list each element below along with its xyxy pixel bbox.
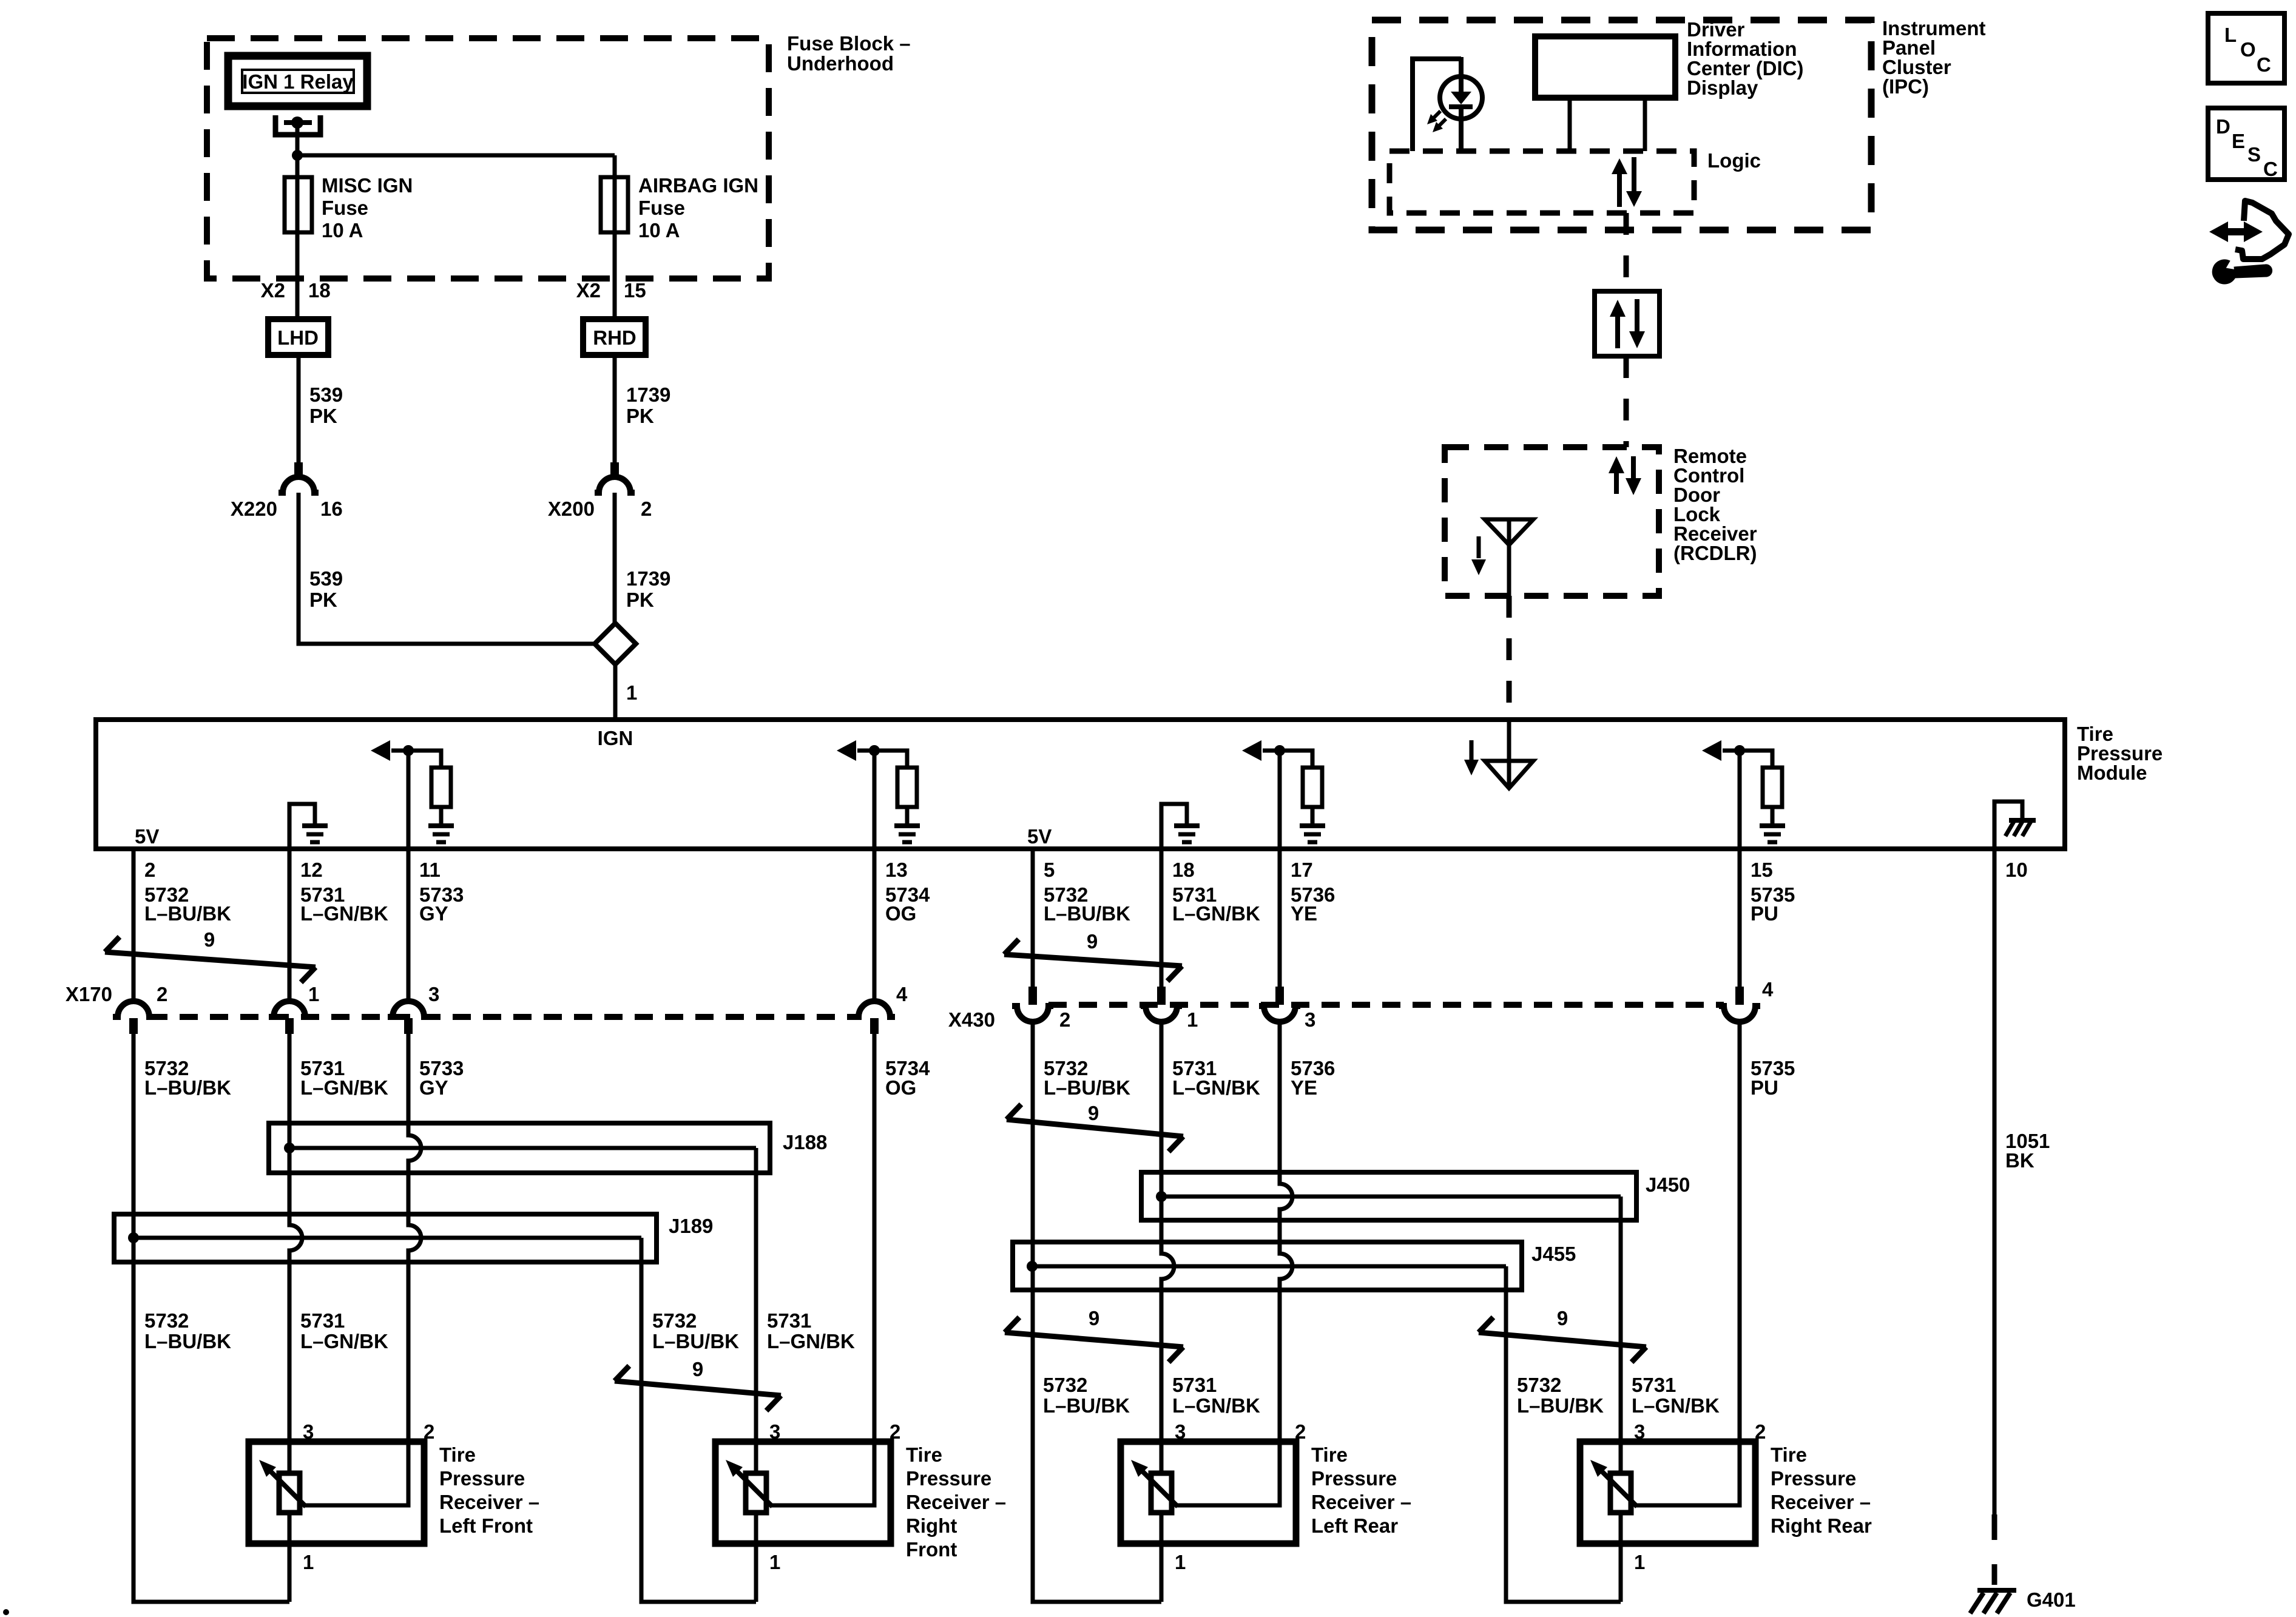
ground symbol internal pin 18 — [1161, 804, 1200, 849]
wire module pin to X430 at x=2867 — [1738, 849, 1742, 987]
antenna driver resistor internal pin 11 — [371, 740, 454, 849]
label AIRBAG IGN Fuse 10 A — [638, 174, 758, 241]
svg-text:3: 3 — [428, 983, 439, 1005]
svg-text:18: 18 — [308, 279, 331, 302]
svg-text:16: 16 — [320, 498, 343, 520]
svg-text:2: 2 — [424, 1420, 434, 1443]
label Remote Control Door Lock Receiver (RCDLR) — [1673, 445, 1757, 564]
svg-text:4: 4 — [896, 983, 908, 1005]
label pin 3 right rear — [1634, 1420, 1645, 1443]
svg-text:Receiver –: Receiver – — [1771, 1491, 1871, 1513]
wire 1739 PK upper label — [626, 383, 670, 427]
svg-text:2: 2 — [1755, 1420, 1766, 1443]
svg-text:5732: 5732 — [1043, 1374, 1087, 1396]
wire label 5732 L–BU/BK lower — [1043, 1374, 1130, 1417]
relay K IGN 1 Relay box — [228, 56, 367, 106]
svg-text:539: 539 — [309, 567, 343, 590]
wire J188 output 5731 to right front pin 3 — [754, 1148, 758, 1602]
wire module pin to X170 at x=477 — [288, 849, 292, 1002]
wire label 5733 GY upper — [419, 883, 464, 925]
label X430 pin 4 — [1762, 978, 1774, 1001]
photocell sensor symbol — [1413, 57, 1482, 151]
connector X2 pin 15 label — [576, 279, 646, 302]
splice pack J188 — [269, 1123, 770, 1173]
wire label 5731 L–GN/BK upper — [300, 883, 388, 925]
svg-text:2: 2 — [1295, 1420, 1306, 1443]
connector X170 pin 2 — [113, 1001, 154, 1034]
svg-text:Left Rear: Left Rear — [1311, 1514, 1398, 1537]
svg-text:RHD: RHD — [593, 326, 636, 349]
wire DIC display left leg — [1568, 98, 1572, 151]
wire label 5733 GY below connector — [419, 1057, 464, 1099]
svg-text:9: 9 — [204, 928, 215, 951]
wire module pin to X170 at x=1441 — [873, 849, 877, 1002]
label module pin 18 — [1172, 859, 1195, 881]
svg-text:L–BU/BK: L–BU/BK — [1044, 902, 1130, 925]
svg-text:17: 17 — [1291, 859, 1313, 881]
relay contact terminal symbol — [275, 115, 320, 135]
svg-text:(RCDLR): (RCDLR) — [1673, 542, 1757, 564]
svg-text:PK: PK — [309, 405, 337, 427]
svg-text:MISC IGN: MISC IGN — [322, 174, 413, 197]
svg-text:C: C — [2263, 158, 2278, 180]
wire 5736 YE with hops at J450 J455 — [1177, 1022, 1292, 1505]
wire label 5732 L–BU/BK below connector — [144, 1057, 231, 1099]
svg-text:L–GN/BK: L–GN/BK — [1172, 1076, 1260, 1099]
wire relay output horizontal to airbag fuse — [297, 154, 615, 158]
wire module pin to X170 at x=673 — [407, 849, 411, 1002]
svg-text:X200: X200 — [548, 498, 595, 520]
label pin 1 left rear — [1175, 1551, 1186, 1573]
svg-text:3: 3 — [303, 1420, 314, 1443]
svg-text:D: D — [2216, 115, 2230, 138]
svg-text:15: 15 — [1751, 859, 1773, 881]
svg-text:L–BU/BK: L–BU/BK — [652, 1330, 739, 1352]
label Tire Pressure Module — [2077, 723, 2163, 784]
svg-text:3: 3 — [769, 1420, 780, 1443]
splice pack J450 — [1141, 1172, 1636, 1220]
tire pressure receiver right rear — [1580, 1442, 1755, 1544]
connector X170 pin 1 — [269, 1001, 310, 1034]
label Fuse Block - Underhood — [787, 32, 911, 75]
label pin 1 right front — [769, 1551, 780, 1573]
instrument panel cluster IPC (dashed box) — [1372, 20, 1871, 230]
svg-text:BK: BK — [2005, 1149, 2034, 1172]
label X430 pin 2 — [1059, 1008, 1070, 1031]
label X170 pin 4 — [896, 983, 908, 1005]
photocell light arrows — [1427, 111, 1446, 132]
label pin 2 right rear — [1755, 1420, 1766, 1443]
svg-text:Underhood: Underhood — [787, 52, 894, 75]
wire relay output vertical — [295, 123, 300, 319]
svg-text:L–BU/BK: L–BU/BK — [144, 902, 231, 925]
wire label 5735 PU upper — [1751, 883, 1795, 925]
wire label 5736 YE upper — [1291, 883, 1335, 925]
svg-text:L–BU/BK: L–BU/BK — [144, 1076, 231, 1099]
svg-text:(IPC): (IPC) — [1882, 75, 1929, 98]
label pin 3 right front — [769, 1420, 780, 1443]
svg-text:IGN 1 Relay: IGN 1 Relay — [242, 70, 354, 93]
wire label 5732 L–BU/BK mid — [144, 1309, 231, 1352]
svg-text:L–GN/BK: L–GN/BK — [1632, 1394, 1720, 1417]
logic data arrows — [1612, 157, 1642, 207]
svg-text:3: 3 — [1634, 1420, 1645, 1443]
label Logic — [1707, 149, 1761, 172]
label module pin 2 — [144, 859, 155, 881]
svg-text:YE: YE — [1291, 1076, 1317, 1099]
wire airbag fuse vertical — [613, 155, 617, 319]
icon wrench outline — [2235, 201, 2289, 259]
svg-text:5V: 5V — [135, 825, 159, 848]
svg-text:Pressure: Pressure — [439, 1467, 525, 1490]
label X200 2 — [548, 498, 652, 520]
svg-text:L–BU/BK: L–BU/BK — [1517, 1394, 1604, 1417]
connector X430 pin 1 — [1141, 987, 1182, 1022]
label module pin 5 — [1044, 859, 1055, 881]
ground symbol internal pin 12 — [289, 804, 328, 849]
wire label 5731 L–GN/BK mid — [300, 1309, 388, 1352]
svg-text:5731: 5731 — [1632, 1374, 1676, 1396]
DIC display box — [1535, 36, 1675, 98]
wire label 5732 L–BU/BK upper — [1044, 883, 1130, 925]
connector X170 pin 3 — [388, 1001, 429, 1034]
wire RF signal RCDLR to module (dashed) — [1507, 596, 1512, 720]
svg-text:1: 1 — [1634, 1551, 1645, 1573]
svg-text:10 A: 10 A — [638, 219, 680, 241]
wire 5731 right column with hop at J455 — [1161, 1022, 1174, 1602]
svg-text:O: O — [2240, 38, 2256, 61]
svg-text:13: 13 — [885, 859, 908, 881]
wire 5732 right column down to bottom turn — [1033, 1022, 1161, 1602]
svg-text:2: 2 — [157, 983, 167, 1005]
wire DIC display right leg — [1643, 98, 1647, 151]
svg-text:Tire: Tire — [439, 1443, 476, 1466]
svg-text:L–GN/BK: L–GN/BK — [1172, 902, 1260, 925]
svg-text:9: 9 — [1557, 1307, 1568, 1329]
connector X170 pin 4 — [854, 1001, 895, 1034]
label IGN internal — [598, 727, 633, 749]
splice diamond symbol — [595, 623, 636, 664]
label 5V internal right — [1027, 825, 1052, 848]
svg-text:LHD: LHD — [277, 326, 319, 349]
svg-text:Front: Front — [906, 1538, 957, 1561]
svg-text:11: 11 — [419, 859, 441, 881]
label module pin 17 — [1291, 859, 1313, 881]
fuse F MISC IGN 10A — [285, 177, 312, 232]
svg-text:L–GN/BK: L–GN/BK — [300, 1076, 388, 1099]
svg-text:PU: PU — [1751, 902, 1778, 925]
label pin 3 left rear — [1175, 1420, 1186, 1443]
wire 5733 GY with hops at J188 J189 — [305, 1034, 421, 1505]
svg-text:L–BU/BK: L–BU/BK — [1044, 1076, 1130, 1099]
label X430 pin 3 — [1305, 1008, 1315, 1031]
svg-text:X2: X2 — [576, 279, 601, 302]
svg-text:X220: X220 — [231, 498, 277, 520]
svg-text:12: 12 — [300, 859, 323, 881]
wire label 5731 L–GN/BK upper — [1172, 883, 1260, 925]
svg-text:J189: J189 — [669, 1215, 713, 1237]
svg-text:PK: PK — [309, 589, 337, 611]
svg-text:1739: 1739 — [626, 567, 670, 590]
svg-text:5: 5 — [1044, 859, 1055, 881]
option box RHD — [583, 319, 646, 355]
label J450 — [1646, 1173, 1690, 1196]
label J455 — [1531, 1243, 1576, 1265]
svg-text:1: 1 — [769, 1551, 780, 1573]
svg-text:L–GN/BK: L–GN/BK — [767, 1330, 855, 1352]
svg-text:Pressure: Pressure — [906, 1467, 991, 1490]
label MISC IGN Fuse 10 A — [322, 174, 413, 241]
wire module pin to X430 at x=1702 — [1031, 849, 1035, 987]
svg-text:AIRBAG IGN: AIRBAG IGN — [638, 174, 758, 197]
svg-text:Receiver –: Receiver – — [1311, 1491, 1411, 1513]
svg-text:Display: Display — [1687, 76, 1758, 99]
label pin 1 right rear — [1634, 1551, 1645, 1573]
svg-text:G401: G401 — [2027, 1588, 2076, 1611]
label X170 pin 1 — [308, 983, 319, 1005]
svg-text:Fuse: Fuse — [638, 197, 685, 219]
svg-text:L–BU/BK: L–BU/BK — [144, 1330, 231, 1352]
svg-text:X2: X2 — [261, 279, 285, 302]
wire label 5734 OG below connector — [885, 1057, 930, 1099]
twisted pair symbol 9 upper right — [1004, 930, 1182, 981]
svg-text:L: L — [2224, 24, 2237, 46]
label pin 2 right front — [890, 1420, 900, 1443]
label X170 pin 2 — [157, 983, 167, 1005]
label module pin 11 — [419, 859, 441, 881]
svg-text:Tire: Tire — [906, 1443, 942, 1466]
svg-text:9: 9 — [1087, 930, 1098, 953]
wire 5735 PU down to right rear pin 2 — [1636, 1022, 1740, 1505]
antenna driver resistor internal pin 17 — [1242, 740, 1325, 849]
fuse block - underhood (dashed box) — [207, 38, 769, 279]
twisted pair symbol 9 left rear — [1005, 1307, 1183, 1362]
svg-text:Receiver –: Receiver – — [439, 1491, 539, 1513]
svg-text:J450: J450 — [1646, 1173, 1690, 1196]
wire 1739 PK lower label — [626, 567, 670, 611]
label X170 — [66, 983, 112, 1005]
option box LHD — [268, 319, 328, 355]
wire J455 output 5732 to right rear pin 1 — [1506, 1266, 1621, 1602]
label 5V internal left — [135, 825, 159, 848]
svg-text:539: 539 — [309, 383, 343, 406]
wire 5732 left column down to bottom turn — [133, 1034, 289, 1602]
label module pin 10 — [2005, 859, 2028, 881]
connector X430 pin 4 — [1719, 987, 1760, 1022]
svg-text:GY: GY — [419, 902, 448, 925]
wire 5734 OG down to right front pin 2 — [771, 1034, 874, 1505]
svg-text:Pressure: Pressure — [1311, 1467, 1397, 1490]
svg-text:E: E — [2232, 130, 2245, 152]
svg-text:5731: 5731 — [1172, 1374, 1217, 1396]
wire label 5732 L–BU/BK lower — [1517, 1374, 1604, 1417]
wire label 5732 L–BU/BK upper — [144, 883, 231, 925]
svg-text:2: 2 — [1059, 1008, 1070, 1031]
label X170 pin 3 — [428, 983, 439, 1005]
wire 1051 BK pin 10 to G401 — [1993, 849, 1997, 1585]
label pin 1 left front — [303, 1551, 314, 1573]
svg-text:Right Rear: Right Rear — [1771, 1514, 1872, 1537]
logic (dashed box) — [1389, 151, 1694, 213]
wire label 5731 L–GN/BK below connector — [1172, 1057, 1260, 1099]
wire module pin to X430 at x=2109 — [1278, 849, 1282, 987]
wire label 5731 L–GN/BK below connector — [300, 1057, 388, 1099]
wire label 5734 OG upper — [885, 883, 930, 925]
svg-text:PK: PK — [626, 589, 654, 611]
label J188 — [783, 1131, 827, 1153]
svg-text:5731: 5731 — [300, 1309, 345, 1332]
svg-text:1: 1 — [1187, 1008, 1198, 1031]
wire RHD to X200 — [613, 355, 617, 464]
svg-text:9: 9 — [1089, 1307, 1099, 1329]
chassis ground internal pin 10 — [1994, 802, 2036, 849]
label pin 1 — [626, 681, 637, 704]
label X220 16 — [231, 498, 343, 520]
wire label 5732 L–BU/BK mid — [652, 1309, 739, 1352]
connector X430 dashed line — [1048, 1002, 1724, 1008]
wire label 5736 YE below connector — [1291, 1057, 1335, 1099]
svg-text:18: 18 — [1172, 859, 1195, 881]
svg-text:15: 15 — [624, 279, 646, 302]
wire splice to module pin 1 — [613, 664, 618, 720]
wire module pin to X170 at x=220 — [132, 849, 136, 1002]
node splice junction under relay — [292, 150, 303, 161]
svg-text:X430: X430 — [948, 1008, 995, 1031]
svg-text:Left Front: Left Front — [439, 1514, 533, 1537]
wire label 5735 PU below connector — [1751, 1057, 1795, 1099]
svg-text:L–GN/BK: L–GN/BK — [300, 902, 388, 925]
icon wrench solid — [2212, 260, 2272, 284]
splice pack J455 — [1013, 1242, 1522, 1290]
svg-text:PU: PU — [1751, 1076, 1778, 1099]
svg-text:L–GN/BK: L–GN/BK — [300, 1330, 388, 1352]
label tire pressure receiver right front — [906, 1443, 1006, 1561]
svg-text:5732: 5732 — [144, 1309, 189, 1332]
page mark dot bottom left — [3, 1609, 9, 1615]
icon DESC box — [2208, 108, 2284, 180]
label tire pressure receiver right rear — [1771, 1443, 1872, 1537]
label pin 2 left front — [424, 1420, 434, 1443]
twisted pair symbol 9 right front — [615, 1358, 781, 1411]
svg-text:2: 2 — [144, 859, 155, 881]
connector X430 pin 3 — [1259, 987, 1300, 1022]
svg-text:9: 9 — [1088, 1102, 1099, 1124]
tire pressure receiver left front — [249, 1442, 424, 1544]
svg-text:Fuse Block –: Fuse Block – — [787, 32, 911, 55]
svg-text:5V: 5V — [1027, 825, 1052, 848]
svg-text:5732: 5732 — [1517, 1374, 1561, 1396]
svg-text:OG: OG — [885, 902, 916, 925]
svg-text:Right: Right — [906, 1514, 957, 1537]
svg-text:2: 2 — [890, 1420, 900, 1443]
label J189 — [669, 1215, 713, 1237]
svg-text:X170: X170 — [66, 983, 112, 1005]
label tire pressure receiver left rear — [1311, 1443, 1411, 1537]
svg-text:Receiver –: Receiver – — [906, 1491, 1006, 1513]
svg-text:S: S — [2247, 143, 2261, 166]
wire label 5731 L–GN/BK mid — [767, 1309, 855, 1352]
label X430 pin 1 — [1187, 1008, 1198, 1031]
wire 5731 left column with hop at J189 — [289, 1034, 302, 1602]
wire label 5731 L–GN/BK lower — [1172, 1374, 1260, 1417]
connector X2 pin 18 label — [261, 279, 331, 302]
label pin 3 left front — [303, 1420, 314, 1443]
wire 539 PK upper label — [309, 383, 343, 427]
splice pack J189 — [114, 1214, 657, 1262]
antenna driver resistor internal pin 13 — [837, 740, 920, 849]
svg-text:OG: OG — [885, 1076, 916, 1099]
connector X220 pin 16 inline — [279, 462, 319, 493]
connector X200 pin 2 inline — [595, 462, 635, 493]
label X430 — [948, 1008, 995, 1031]
svg-text:1: 1 — [1175, 1551, 1186, 1573]
icon double arrow — [2209, 221, 2263, 242]
label Instrument Panel Cluster (IPC) — [1882, 17, 1986, 98]
svg-text:J188: J188 — [783, 1131, 827, 1153]
RCDLR data arrows — [1609, 456, 1641, 495]
label module pin 15 — [1751, 859, 1773, 881]
svg-text:1: 1 — [626, 681, 637, 704]
wire J450 output 5731 to right rear pin 3 — [1619, 1197, 1623, 1602]
wire 539 PK down and right to splice — [299, 493, 595, 644]
antenna driver resistor internal pin 15 — [1702, 740, 1785, 849]
module antenna symbol — [1464, 720, 1533, 788]
icon LOC box — [2208, 13, 2284, 83]
svg-text:9: 9 — [692, 1358, 703, 1380]
wire 539 PK lower label — [309, 567, 343, 611]
svg-text:L–BU/BK: L–BU/BK — [1043, 1394, 1130, 1417]
wire serial data DLC box to RCDLR (dashed) — [1624, 356, 1629, 447]
svg-text:10 A: 10 A — [322, 219, 363, 241]
wire label 5732 L–BU/BK below connector — [1044, 1057, 1130, 1099]
svg-text:Pressure: Pressure — [1771, 1467, 1856, 1490]
svg-text:C: C — [2257, 53, 2271, 76]
remote control door lock receiver RCDLR (dashed box) — [1445, 447, 1659, 596]
svg-text:1739: 1739 — [626, 383, 670, 406]
label Driver Information Center (DIC) Display — [1687, 18, 1804, 99]
fuse F AIRBAG IGN 10A — [601, 177, 628, 232]
svg-text:Logic: Logic — [1707, 149, 1761, 172]
svg-text:10: 10 — [2005, 859, 2028, 881]
label module pin 13 — [885, 859, 908, 881]
connector X430 pin 2 — [1012, 987, 1053, 1022]
twisted pair symbol 9 below X430 — [1007, 1102, 1183, 1152]
twisted pair symbol 9 right rear — [1479, 1307, 1646, 1362]
label module pin 12 — [300, 859, 323, 881]
connector X170 dashed line — [149, 1014, 859, 1020]
svg-text:1: 1 — [303, 1551, 314, 1573]
serial data link box — [1595, 291, 1660, 356]
svg-text:L–GN/BK: L–GN/BK — [1172, 1394, 1260, 1417]
svg-text:IGN: IGN — [598, 727, 633, 749]
label pin 2 left rear — [1295, 1420, 1306, 1443]
wire module pin to X430 at x=1914 — [1160, 849, 1164, 987]
wire LHD to X220 — [297, 355, 301, 464]
svg-text:PK: PK — [626, 405, 654, 427]
label tire pressure receiver left front — [439, 1443, 539, 1537]
wire label 5731 L–GN/BK lower — [1632, 1374, 1720, 1417]
wire J189 output 5732 to right front pin 1 — [641, 1238, 756, 1602]
twisted pair symbol 9 upper left — [105, 928, 316, 982]
svg-text:Fuse: Fuse — [322, 197, 368, 219]
svg-text:Tire: Tire — [1771, 1443, 1807, 1466]
wire serial data IPC to DLC box (dashed) — [1624, 213, 1629, 291]
wire 1739 PK down to splice — [613, 493, 617, 623]
wire label 1051 BK — [2005, 1130, 2050, 1172]
svg-text:Module: Module — [2077, 761, 2147, 784]
tire pressure receiver left rear — [1121, 1442, 1296, 1544]
svg-text:YE: YE — [1291, 902, 1317, 925]
